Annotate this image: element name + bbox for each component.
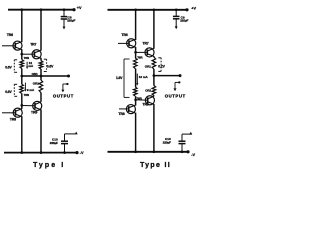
node TR7 base junction <box>20 53 23 56</box>
node output junction A <box>20 75 23 78</box>
transistor TR9 (Type II) <box>145 96 154 105</box>
node rail junction D <box>153 8 156 11</box>
svg-text:+V: +V <box>191 7 196 11</box>
node output junction (Type II) <box>153 74 156 77</box>
wire TR6 base (Type II) <box>118 42 129 44</box>
transistor TR6 <box>13 41 22 50</box>
capacitor C10 (Type I) <box>61 132 78 153</box>
svg-text:76R: 76R <box>24 93 30 97</box>
wire TR6 base <box>2 45 16 47</box>
transistor TR9 <box>33 101 42 110</box>
wire TR9 base <box>22 105 36 107</box>
node rail junction A <box>20 8 23 11</box>
svg-text:+V: +V <box>77 6 82 10</box>
svg-text:TR6: TR6 <box>121 33 127 37</box>
svg-text:76R: 76R <box>137 56 143 60</box>
svg-text:0.6V: 0.6V <box>5 90 12 94</box>
wire TR6 collector <box>21 10 23 43</box>
wire TR7 collector <box>40 10 42 51</box>
wire TR8 collector <box>21 116 23 152</box>
wire TR6 emitter to node <box>21 49 23 59</box>
node rail junction C9 <box>175 8 178 11</box>
wire TR8 base <box>2 112 16 114</box>
node +V terminal (Type I) <box>72 8 75 11</box>
wire TR7 base <box>22 53 35 55</box>
wire -V rail (Type I) <box>4 152 77 154</box>
node rail junction C <box>134 8 137 11</box>
output pointer (Type II) <box>174 81 181 91</box>
current arrow 10 mA <box>136 74 138 86</box>
svg-text:OR1: OR1 <box>145 88 151 92</box>
node rail junction A bottom <box>20 151 23 154</box>
svg-text:220µF: 220µF <box>163 141 171 145</box>
transistor TR8 <box>13 108 22 117</box>
transistor TR8 (Type II) <box>126 105 135 114</box>
node rail junction B bottom <box>40 151 43 154</box>
current arrow 9 mA <box>24 83 26 92</box>
wire TR9 collector <box>40 110 42 153</box>
svg-text:Type II: Type II <box>140 162 171 169</box>
wire OR1 lower to TR9 emitter <box>40 93 42 102</box>
svg-text:76R: 76R <box>24 56 30 60</box>
node TR9 base junction <box>20 104 23 107</box>
wire output node to OR1 lower (Type II) <box>153 76 155 86</box>
wire 76R lower to TR8 (Type II) <box>135 96 137 105</box>
svg-text:0.6V: 0.6V <box>5 65 12 69</box>
output pointer (Type I) <box>61 83 68 93</box>
transistor TR6 (Type II) <box>127 39 136 48</box>
svg-text:OR1: OR1 <box>145 65 151 69</box>
svg-text:TR8: TR8 <box>10 117 16 121</box>
1.6V bracket <box>124 59 130 97</box>
resistor 76R upper (Type II) <box>134 58 138 69</box>
svg-text:1.6V: 1.6V <box>116 76 123 80</box>
capacitor C10 (Type II) <box>179 132 193 152</box>
svg-text:-V: -V <box>80 151 84 155</box>
svg-text:220µF: 220µF <box>67 19 75 23</box>
wire TR7 collector (Type II) <box>153 10 155 49</box>
wire 76R lower to TR8 <box>21 93 23 109</box>
wire TR7 emitter to OR1 <box>40 58 42 61</box>
svg-text:OUTPUT: OUTPUT <box>53 93 74 98</box>
svg-text:TR9: TR9 <box>31 110 37 114</box>
capacitor C9 <box>173 10 180 29</box>
wire -V rail (Type II) <box>108 151 189 153</box>
svg-text:OR1: OR1 <box>33 82 39 86</box>
transistor TR7 <box>32 50 41 59</box>
wire output node to 76R lower <box>21 76 23 84</box>
svg-text:Type I: Type I <box>33 162 65 169</box>
transistor TR7 (Type II) <box>145 48 154 57</box>
0.2V bracket <box>158 58 161 72</box>
wire TR7 base (Type II) <box>136 51 148 53</box>
wire OR1 lower to TR9 emitter (Type II) <box>153 95 155 98</box>
node rail junction B <box>40 8 43 11</box>
svg-text:0.6V: 0.6V <box>47 65 54 69</box>
wire TR6 collector (Type II) <box>135 10 137 40</box>
resistor OR1 upper (Type I) <box>39 61 43 69</box>
svg-text:TR9: TR9 <box>142 103 148 107</box>
wire TR8 collector (Type II) <box>135 113 137 152</box>
node rail junction C bottom <box>134 150 137 153</box>
wire TR9 base (Type II) <box>136 99 148 101</box>
svg-text:TR7: TR7 <box>142 42 148 46</box>
0.6V bracket lower-left <box>14 84 17 96</box>
wire output line (Type I) <box>22 75 69 77</box>
wire output line (Type II) <box>154 75 180 77</box>
resistor OR1 lower (Type II) <box>152 86 156 96</box>
node TR9 base junction (Type II) <box>134 98 137 101</box>
wire TR7 emitter to OR1 (Type II) <box>153 56 155 57</box>
0.6V bracket upper-left <box>14 60 17 73</box>
node rail junction D bottom <box>153 150 156 153</box>
node rail junction C10 (Type II) <box>181 150 184 153</box>
node -V terminal (Type II) <box>186 150 189 153</box>
current arrow 12 mA <box>26 62 28 69</box>
svg-text:0.2V: 0.2V <box>158 64 165 68</box>
node output terminal (Type I) <box>67 75 70 78</box>
svg-text:-V: -V <box>191 153 195 157</box>
svg-text:TR8: TR8 <box>118 112 124 116</box>
node TR7 base junction (Type II) <box>134 51 137 54</box>
svg-text:9 mA: 9 mA <box>27 88 35 92</box>
wire OR1 to output node <box>40 69 42 76</box>
wire between 76R resistors (Type II) <box>135 69 137 88</box>
wire TR6 emitter to node (Type II) <box>135 47 137 58</box>
0.6V bracket upper-right <box>44 59 47 71</box>
resistor 76R lower (Type I) <box>20 84 24 93</box>
svg-text:mA: mA <box>28 64 34 68</box>
resistor 76R upper (Type I) <box>20 60 24 69</box>
svg-text:10 mA: 10 mA <box>139 75 149 79</box>
node rail junction C10 <box>63 151 66 154</box>
svg-text:TR7: TR7 <box>30 43 36 47</box>
node -V terminal (Type I) <box>75 151 78 154</box>
svg-text:OUTPUT: OUTPUT <box>165 93 186 98</box>
svg-text:TR6: TR6 <box>7 33 13 37</box>
wire TR8 base (Type II) <box>119 108 129 110</box>
wire output node to OR1 lower <box>40 76 42 80</box>
node +V terminal (Type II) <box>185 8 188 11</box>
wire +V rail (Type II) <box>108 9 188 11</box>
resistor OR1 lower (Type I) <box>39 80 43 93</box>
svg-text:220µF: 220µF <box>50 141 58 145</box>
resistor OR1 upper (Type II) <box>152 57 156 69</box>
node output junction B <box>40 75 43 78</box>
wire +V rail (Type I) <box>8 9 74 11</box>
node rail junction C8 <box>63 8 66 11</box>
capacitor C8 <box>61 10 68 30</box>
resistor 76R lower (Type II) <box>134 87 138 96</box>
wire 76R to output node <box>21 69 23 77</box>
wire OR1 to output node (Type II) <box>153 69 155 76</box>
wire TR9 collector (Type II) <box>153 104 155 152</box>
svg-text:220µF: 220µF <box>180 18 188 22</box>
node output terminal (Type II) <box>179 74 182 77</box>
